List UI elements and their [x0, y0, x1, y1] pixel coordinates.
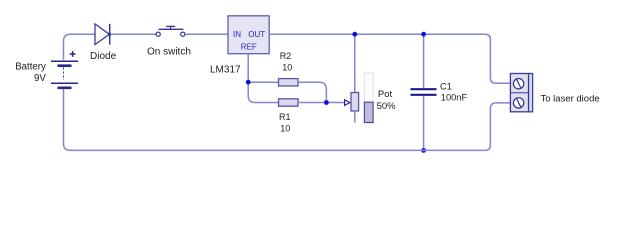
svg-text:50%: 50%	[377, 101, 397, 112]
wire: top rail down to pot top terminal	[354, 34, 356, 92]
wire: switch right contact to LM317 IN pin	[185, 33, 228, 35]
wire: R2 right side down to merge junction	[298, 82, 326, 102]
svg-text:C1: C1	[440, 81, 452, 91]
voltage regulator U1 LM317	[210, 16, 269, 76]
potentiometer wiper arrow	[345, 100, 350, 106]
wire: bottom rail from battery negative to connector bottom terminal	[64, 89, 511, 151]
potentiometer body	[351, 93, 359, 112]
wire: REF node down and right to R1	[248, 82, 278, 102]
svg-text:On switch: On switch	[147, 47, 191, 58]
wire: top rail down to C1 top plate	[423, 34, 425, 88]
node: top rail / C1 junction	[421, 32, 426, 37]
wire: REF node right to R2	[248, 81, 278, 83]
svg-text:10: 10	[280, 123, 290, 133]
node: top rail / pot junction	[352, 32, 357, 37]
svg-text:To laser diode: To laser diode	[541, 94, 600, 105]
svg-text:9V: 9V	[34, 73, 46, 84]
svg-text:R1: R1	[279, 112, 291, 122]
svg-text:Diode: Diode	[90, 51, 117, 62]
diode D1	[90, 24, 117, 62]
wire: top rail from LM317 OUT to top-right corner, down to connector top terminal	[269, 34, 510, 83]
svg-text:R2: R2	[280, 51, 292, 61]
wire: diode cathode to switch left contact	[110, 33, 156, 35]
wire: pot bottom terminal stub (unconnected)	[354, 111, 356, 123]
svg-text:100nF: 100nF	[441, 93, 468, 103]
resistor R1 value 10	[279, 99, 299, 134]
node: bottom rail / C1 junction	[421, 148, 426, 153]
resistor R2 value 10	[279, 51, 299, 86]
switch S1 push button "On switch"	[147, 26, 191, 57]
wire: LM317 REF pin down to feedback node	[247, 54, 249, 82]
node: REF / R1 / R2 junction	[246, 80, 251, 85]
svg-text:IN: IN	[233, 30, 241, 39]
svg-text:Pot: Pot	[378, 89, 393, 100]
node: R1 / R2 merge junction	[324, 100, 329, 105]
battery B1 9V	[15, 51, 78, 88]
svg-text:LM317: LM317	[210, 65, 241, 76]
capacitor C1 value 100nF	[411, 81, 468, 102]
connector J1 screw terminal "To laser diode"	[510, 74, 599, 112]
slider control showing pot position 50%	[364, 73, 396, 123]
svg-text:Battery: Battery	[15, 62, 46, 73]
svg-text:10: 10	[282, 63, 292, 73]
wire: C1 bottom plate down to bottom rail	[423, 96, 425, 151]
wire: battery positive up to top rail and right to diode anode	[64, 34, 96, 60]
svg-text:OUT: OUT	[248, 30, 265, 39]
svg-text:REF: REF	[241, 43, 257, 52]
wire: R1 right side to pot wiper arrow	[298, 102, 345, 104]
